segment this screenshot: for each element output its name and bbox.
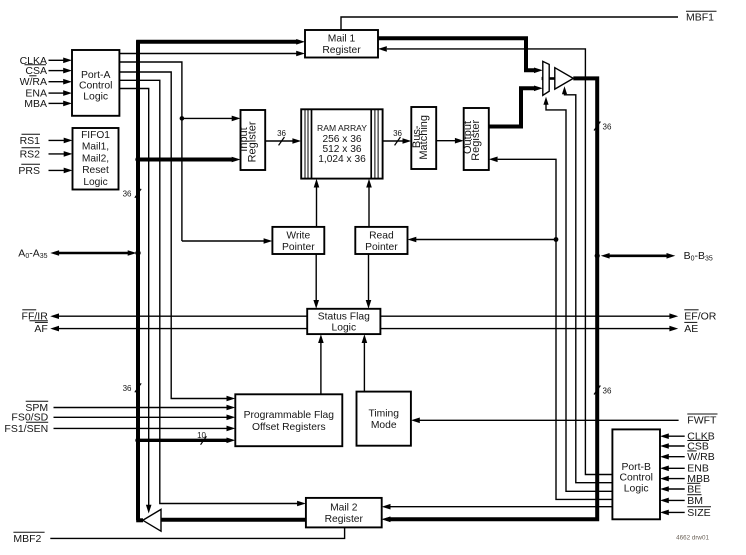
svg-text:512 x 36: 512 x 36 — [322, 144, 361, 155]
svg-text:Programmable Flag: Programmable Flag — [244, 410, 335, 421]
svg-text:FS1/SEN: FS1/SEN — [4, 423, 48, 435]
wire thick bus branch to Input Register — [138, 158, 233, 162]
svg-text:Register: Register — [325, 514, 364, 525]
svg-text:36: 36 — [123, 190, 132, 199]
wire Port-A ctrl via x=148.7 to Mail2 output buffer enable — [119, 89, 148, 506]
wire thick B-port data bus from buffer output — [391, 78, 598, 519]
svg-text:Offset Registers: Offset Registers — [252, 422, 326, 433]
wire Port-B ctrl into Mail 1 Register right edge — [378, 46, 387, 52]
wire Timing Mode up into Status Flag Logic — [363, 342, 365, 392]
wire Bus-Matching to Output Register — [436, 140, 456, 142]
svg-text:Logic: Logic — [83, 91, 108, 102]
wire Write Pointer down into Status Flag Logic — [315, 254, 317, 301]
box RAM ARRAY 256x512x1024 x36 — [301, 109, 382, 178]
wire AE flag output to right — [380, 328, 669, 330]
wire Write Pointer up into RAM — [316, 186, 318, 227]
wire mux select ctrl from Port-B — [543, 97, 548, 105]
connector mux to tri-state buffer — [549, 77, 555, 80]
svg-text:SIZE: SIZE — [687, 507, 710, 519]
svg-text:36: 36 — [603, 386, 612, 395]
svg-text:Read: Read — [369, 230, 394, 241]
svg-text:W/RB: W/RB — [687, 451, 714, 463]
svg-text:RAM ARRAY: RAM ARRAY — [317, 123, 367, 133]
wire EF/OR flag output to right — [380, 315, 669, 317]
wire thick Output Register to B-port mux — [489, 88, 535, 126]
wire buffer enable ctrl from Port-B — [562, 86, 567, 94]
wire FF/IR flag output to left — [59, 315, 308, 317]
wire Input Register to RAM with 36 width mark — [265, 140, 293, 142]
box Read Pointer — [355, 227, 407, 254]
wire Port-A ctrl via x=159.8 to Mail 2 Register — [119, 80, 298, 503]
svg-text:Mail 2: Mail 2 — [330, 503, 358, 514]
box U1 Port-A Control Logic — [72, 50, 119, 116]
wire thick Mail 1 Register output to B-port mux — [378, 38, 535, 70]
wire Read Pointer down into Status Flag Logic — [368, 254, 370, 301]
svg-text:Logic: Logic — [624, 483, 649, 494]
wire Programmable Flag registers up into Status Flag Logic — [320, 342, 322, 394]
svg-text:Logic: Logic — [83, 177, 107, 188]
junction dot at 10-bit branch — [135, 438, 140, 443]
svg-text:36: 36 — [277, 129, 286, 138]
svg-text:4662 drw01: 4662 drw01 — [676, 535, 709, 542]
svg-text:Reset: Reset — [82, 165, 109, 176]
wire Port-A ctrl via x=171.2 to Programmable Flag registers — [119, 72, 227, 399]
svg-text:AF: AF — [34, 323, 47, 335]
junction dot at Input Register branch — [135, 157, 140, 162]
input FWFT wire into Timing Mode — [420, 419, 679, 421]
svg-text:Control: Control — [619, 473, 653, 484]
box Programmable Flag Offset Registers — [235, 394, 342, 446]
svg-text:Write: Write — [286, 230, 310, 241]
svg-text:Register: Register — [246, 121, 258, 162]
box Status Flag Logic — [307, 309, 380, 334]
svg-text:MBA: MBA — [24, 98, 47, 110]
box Mail 2 Register — [306, 498, 382, 528]
wire thick bus bottom elbow to Mail2 output buffer tip — [136, 518, 143, 522]
svg-text:36: 36 — [603, 122, 612, 131]
node B0-B35 bidirectional port — [595, 253, 600, 258]
wire Port-B ctrl into Output Register right edge — [489, 157, 498, 163]
tri-state buffer triangle Mail2 to A-port — [143, 509, 161, 531]
svg-text:Matching: Matching — [418, 115, 430, 160]
svg-text:RS1: RS1 — [20, 135, 41, 147]
svg-text:Port-A: Port-A — [81, 70, 111, 81]
svg-text:AE: AE — [684, 323, 698, 335]
wire Port-A ctrl via x=181.9 to Input Register and Write Pointer — [119, 62, 181, 241]
svg-text:Mail1,: Mail1, — [82, 142, 109, 153]
svg-text:BE: BE — [687, 483, 701, 495]
svg-text:1,024 x 36: 1,024 x 36 — [318, 154, 366, 165]
svg-text:Register: Register — [322, 45, 361, 56]
junction dot A0-A35 on bus — [135, 250, 140, 255]
wire MBF2 output from Mail 2 Register bottom — [50, 527, 344, 538]
svg-text:FWFT: FWFT — [687, 415, 717, 427]
svg-text:Pointer: Pointer — [365, 242, 398, 253]
svg-text:Mode: Mode — [371, 420, 397, 431]
wire Read Pointer up into RAM — [368, 186, 370, 227]
wire thick 10-bit branch to Programmable Flag registers — [138, 439, 228, 442]
tri-state buffer triangle B-port — [555, 68, 574, 89]
svg-text:Logic: Logic — [331, 323, 356, 334]
svg-text:W/RA: W/RA — [20, 76, 47, 88]
mux trapezoid B-port output multiplexer — [543, 61, 549, 95]
svg-text:Control: Control — [79, 81, 113, 92]
svg-text:Pointer: Pointer — [282, 242, 315, 253]
wire thick B bus into Mail 2 right edge — [382, 517, 391, 523]
box Mail 1 Register — [305, 30, 378, 58]
wire AF flag output to left — [59, 328, 308, 330]
svg-text:MBF2: MBF2 — [13, 533, 41, 545]
svg-text:MBF1: MBF1 — [686, 12, 714, 24]
box Bus-Matching (rotated text) — [411, 107, 436, 169]
wire Port-B ctrl into Mail 2 right edge — [382, 504, 391, 510]
svg-text:Mail 1: Mail 1 — [328, 34, 356, 45]
svg-text:36: 36 — [393, 129, 402, 138]
svg-text:Register: Register — [470, 119, 482, 160]
svg-text:Mail2,: Mail2, — [82, 153, 109, 164]
svg-text:Port-B: Port-B — [621, 462, 651, 473]
svg-text:36: 36 — [123, 384, 132, 393]
box Input Register (rotated text) — [241, 110, 266, 170]
wire Port-A ctrl to Mail 1 Register (thin) — [119, 53, 297, 55]
box Timing Mode — [357, 392, 411, 446]
wire thick bus elbow to Mail 1 Register input arrow — [136, 40, 297, 44]
svg-text:BM: BM — [687, 495, 703, 507]
wire RAM to Bus-Matching with 36 width mark — [383, 140, 404, 142]
junction dot on ctrl line feeding Input Register — [180, 116, 185, 121]
box Write Pointer — [272, 227, 324, 254]
svg-text:EF/OR: EF/OR — [684, 311, 717, 323]
wire thick A-port data bus vertical — [136, 40, 140, 520]
wire thick Mail 2 Register output through buffer — [161, 518, 306, 522]
svg-text:FIFO1: FIFO1 — [81, 130, 110, 141]
svg-text:Status Flag: Status Flag — [318, 311, 370, 322]
box U2 FIFO1 Mail1 Mail2 Reset Logic — [73, 128, 119, 190]
svg-text:RS2: RS2 — [20, 148, 41, 160]
svg-text:Timing: Timing — [368, 409, 399, 420]
box Port-B Control Logic — [612, 429, 660, 519]
junction dot Read Pointer ctrl branch — [554, 237, 559, 242]
box Output Register (rotated text) — [464, 108, 489, 170]
svg-text:PRS: PRS — [18, 165, 40, 177]
wire MBF1 output from Mail 1 Register top — [341, 17, 678, 30]
